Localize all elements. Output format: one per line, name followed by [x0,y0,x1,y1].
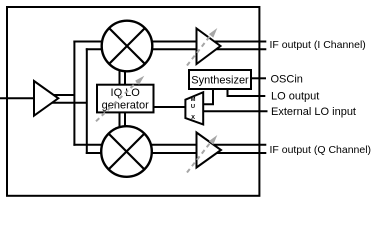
svg-text:IF output (Q Channel): IF output (Q Channel) [270,144,371,156]
svg-text:External LO input: External LO input [271,106,356,118]
svg-text:IF output (I Channel): IF output (I Channel) [270,39,366,51]
svg-text:X: X [191,115,195,121]
svg-text:U: U [191,104,195,110]
svg-text:LO output: LO output [271,90,319,102]
svg-text:M: M [191,97,196,103]
svg-text:Synthesizer: Synthesizer [191,75,249,87]
svg-text:OSCin: OSCin [271,74,303,86]
